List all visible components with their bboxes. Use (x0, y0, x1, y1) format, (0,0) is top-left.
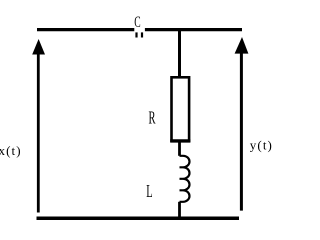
svg-text:y(t): y(t) (250, 138, 273, 153)
svg-text:L: L (146, 183, 152, 202)
svg-text:x(t): x(t) (0, 143, 22, 158)
svg-text:R: R (149, 109, 156, 128)
svg-text:C: C (134, 14, 140, 31)
